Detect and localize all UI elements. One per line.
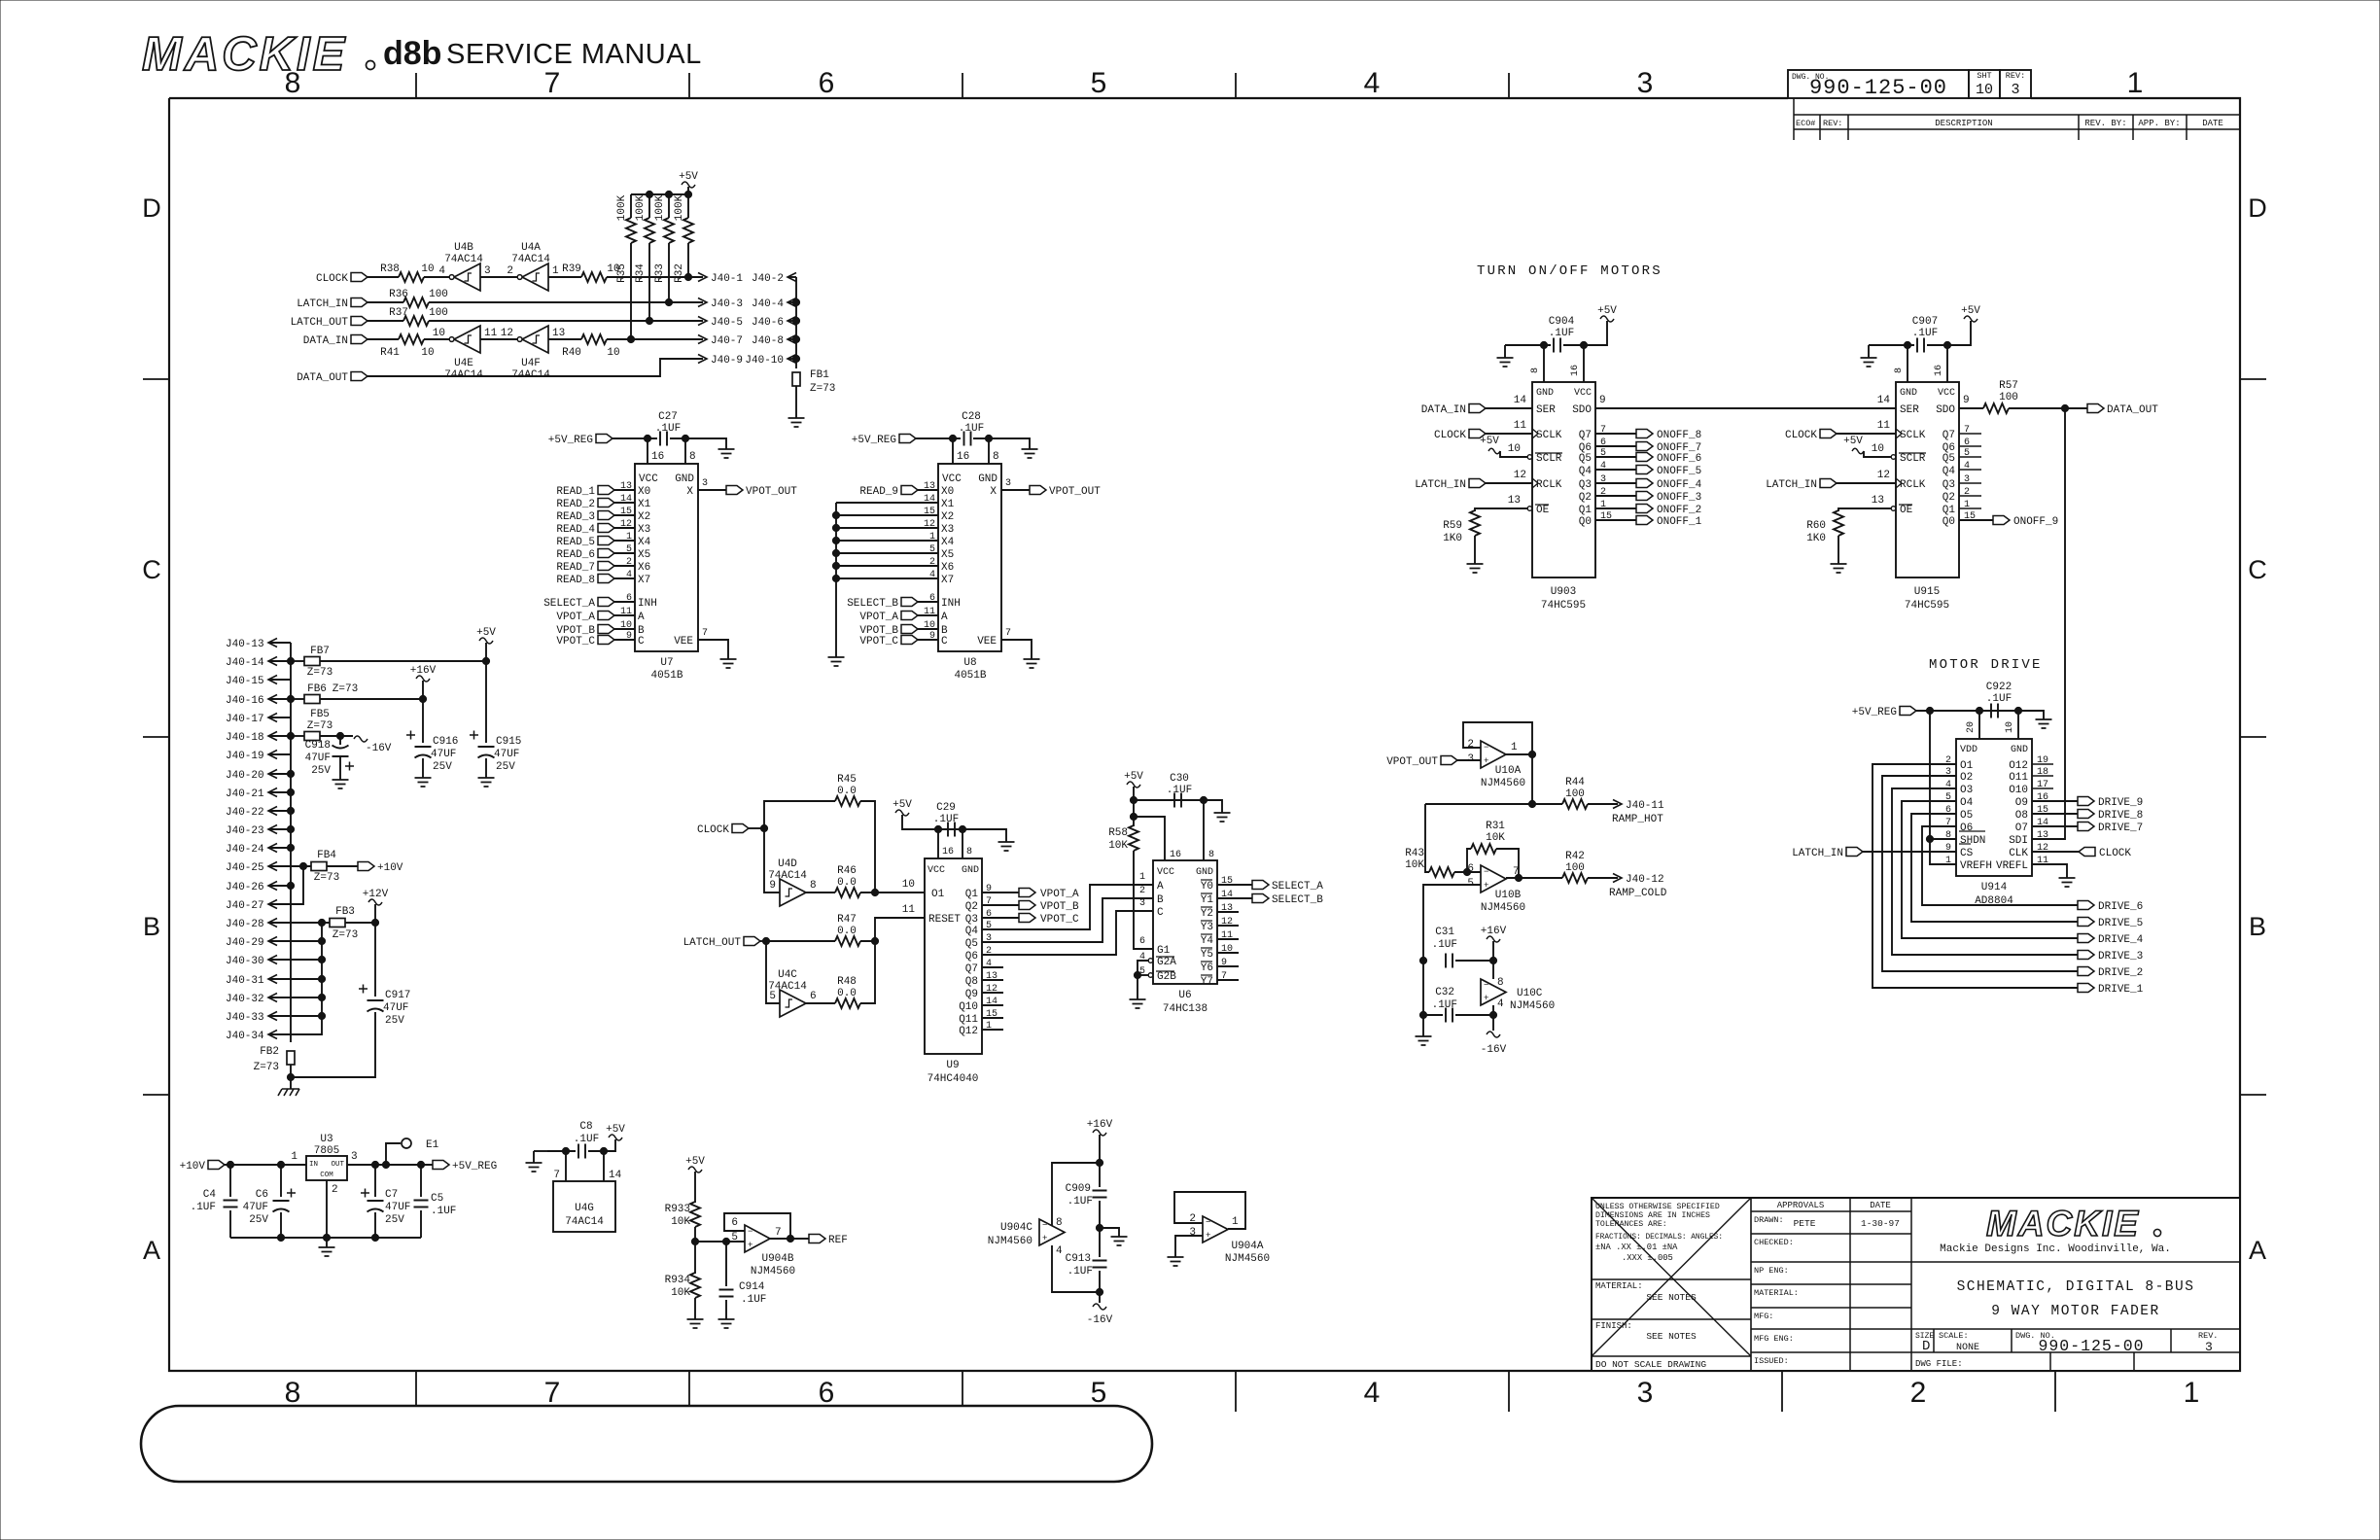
svg-text:Q11: Q11	[959, 1014, 978, 1026]
svg-text:DATE: DATE	[1870, 1201, 1891, 1210]
svg-text:J40-33: J40-33	[226, 1012, 264, 1024]
port +5V_REG out	[433, 1161, 449, 1170]
ground below U904A	[1168, 1257, 1184, 1266]
svg-text:DRIVE_1: DRIVE_1	[2098, 984, 2144, 996]
svg-text:SELECT_A: SELECT_A	[543, 598, 595, 610]
svg-text:.1UF: .1UF	[431, 1206, 456, 1217]
svg-text:J40-24: J40-24	[226, 844, 264, 856]
svg-text:R46: R46	[837, 865, 857, 877]
wire U8 VCC pin 16	[952, 438, 954, 464]
svg-text:Y6: Y6	[1201, 962, 1213, 974]
svg-text:U915: U915	[1914, 586, 1940, 598]
svg-text:6: 6	[819, 67, 835, 99]
resistor R32 100K body	[683, 218, 693, 243]
svg-text:O4: O4	[1960, 797, 1974, 809]
wire U903 Q3 to ONOFF_4	[1595, 482, 1636, 484]
svg-text:R36: R36	[389, 289, 408, 300]
svg-text:READ_1: READ_1	[556, 486, 595, 498]
svg-text:VCC: VCC	[927, 865, 945, 876]
wire U914 DRIVE_2 route	[1882, 776, 2078, 971]
svg-text:ONOFF_8: ONOFF_8	[1657, 430, 1701, 441]
pin J40-7	[698, 335, 707, 344]
stub U9 unused output	[982, 1004, 1003, 1006]
svg-text:U4D: U4D	[778, 858, 797, 870]
svg-text:10K: 10K	[671, 1216, 690, 1228]
svg-text:.1UF: .1UF	[741, 1294, 766, 1306]
svg-text:LATCH_OUT: LATCH_OUT	[291, 317, 349, 329]
svg-text:Q5: Q5	[1579, 453, 1592, 465]
svg-text:Y4: Y4	[1201, 935, 1214, 947]
wire U904B feedback loop	[724, 1213, 790, 1239]
wire J40-24 to bus	[268, 847, 291, 849]
svg-text:10K: 10K	[1486, 832, 1505, 844]
stub U9 unused output	[982, 966, 1003, 968]
capacitor C909 .1UF	[1093, 1191, 1107, 1198]
svg-text:+12V: +12V	[363, 889, 389, 900]
capacitor C30 .1UF	[1174, 793, 1181, 808]
svg-text:+: +	[1484, 756, 1488, 766]
svg-text:8: 8	[1056, 1217, 1063, 1229]
svg-text:DRIVE_6: DRIVE_6	[2098, 901, 2143, 913]
svg-text:16: 16	[957, 451, 969, 463]
svg-text:SELECT_B: SELECT_B	[847, 598, 898, 610]
svg-text:SCLR: SCLR	[1900, 453, 1926, 465]
svg-text:SHDN: SHDN	[1960, 835, 1985, 847]
ferrite bead FB4	[311, 862, 327, 871]
svg-text:C29: C29	[936, 802, 956, 814]
svg-text:X: X	[686, 486, 693, 498]
svg-text:12: 12	[1514, 470, 1526, 481]
svg-text:RAMP_COLD: RAMP_COLD	[1609, 888, 1667, 899]
svg-text:47UF: 47UF	[383, 1002, 408, 1014]
svg-text:C32: C32	[1435, 987, 1454, 998]
svg-text:SDO: SDO	[1936, 404, 1955, 416]
wire ground stub (U904C)	[1100, 1228, 1119, 1237]
svg-text:74HC138: 74HC138	[1163, 1003, 1207, 1015]
svg-text:Q5: Q5	[1942, 453, 1955, 465]
svg-text:C914: C914	[739, 1281, 765, 1293]
svg-text:ONOFF_6: ONOFF_6	[1657, 453, 1701, 465]
svg-text:J40-2: J40-2	[752, 273, 784, 285]
wire R33 to J40-3 row	[668, 243, 670, 302]
wire U8 X4 to bus	[836, 540, 938, 542]
svg-text:R34: R34	[635, 263, 647, 283]
svg-text:47UF: 47UF	[385, 1202, 410, 1213]
svg-text:DRIVE_5: DRIVE_5	[2098, 918, 2143, 929]
svg-text:SCLR: SCLR	[1536, 453, 1562, 465]
resistor R58 10K	[1133, 817, 1135, 826]
svg-text:U904B: U904B	[761, 1253, 793, 1265]
svg-text:16: 16	[1170, 850, 1181, 860]
svg-text:.XXX ±.005: .XXX ±.005	[1622, 1253, 1673, 1263]
wire R34 to J40-5 row	[648, 243, 650, 321]
svg-text:14: 14	[924, 494, 935, 505]
svg-text:U6: U6	[1178, 990, 1191, 1001]
svg-text:12: 12	[501, 328, 513, 339]
svg-text:47UF: 47UF	[431, 749, 456, 760]
svg-text:VPOT_OUT: VPOT_OUT	[746, 486, 797, 498]
wire VPOT_A to U7 A	[614, 614, 635, 616]
wire +5V to C29 rail	[902, 815, 1006, 842]
svg-text:O5: O5	[1960, 810, 1973, 822]
port DRIVE_8	[2078, 810, 2094, 819]
wire READ_7 to U7 X6	[614, 565, 635, 567]
svg-text:GND: GND	[978, 473, 997, 485]
svg-text:Y0: Y0	[1201, 881, 1213, 892]
ground right of C27	[718, 449, 735, 458]
svg-text:LATCH_OUT: LATCH_OUT	[683, 937, 742, 949]
svg-text:6: 6	[1139, 936, 1145, 947]
wire C904 rail	[1505, 344, 1551, 346]
svg-text:SELECT_A: SELECT_A	[1272, 881, 1323, 892]
pin J40-9	[698, 355, 707, 364]
resistor R57 100	[1983, 403, 2009, 413]
svg-text:Q4: Q4	[1579, 466, 1592, 477]
stub U914 unused output	[2032, 775, 2053, 777]
svg-text:100K: 100K	[654, 194, 666, 221]
svg-text:+5V: +5V	[1961, 305, 1980, 317]
wire FB3 to +12V node	[345, 922, 375, 924]
wire U903 Q6 to ONOFF_7	[1595, 445, 1636, 447]
wire U903 GND pin 8	[1543, 345, 1545, 382]
wire R37 to J40-5	[429, 320, 703, 322]
svg-text:SERVICE MANUAL: SERVICE MANUAL	[446, 39, 702, 70]
svg-text:47UF: 47UF	[243, 1202, 268, 1213]
ground below C915	[478, 778, 495, 787]
wire U10B +input to ground net	[1423, 885, 1481, 961]
wire U914 DRIVE_4 route	[1902, 801, 2078, 938]
wire U8 X6 to bus	[836, 565, 938, 567]
wire output node to R44	[1425, 803, 1562, 805]
svg-text:Q7: Q7	[965, 963, 978, 975]
svg-text:READ_8: READ_8	[556, 575, 595, 586]
capacitor C907 .1UF	[1917, 338, 1924, 353]
svg-text:REV:: REV:	[2006, 71, 2025, 81]
svg-text:J40-34: J40-34	[226, 1031, 264, 1042]
svg-text:G2B: G2B	[1157, 971, 1176, 983]
ground below C31/C32	[1416, 1036, 1432, 1045]
wire C915 to ground	[485, 758, 487, 778]
wire LATCH_IN to U903 RCLK	[1486, 482, 1532, 484]
svg-text:J40-18: J40-18	[226, 732, 264, 744]
svg-text:J40-20: J40-20	[226, 770, 264, 782]
ground below R60	[1831, 564, 1847, 573]
drawing border frame	[169, 98, 2240, 1371]
stub U6 Y4	[1217, 938, 1239, 940]
svg-text:REF: REF	[828, 1235, 848, 1246]
svg-text:SCLK: SCLK	[1900, 430, 1926, 441]
svg-text:20: 20	[1966, 721, 1977, 733]
svg-text:VREFH: VREFH	[1960, 860, 1992, 872]
wire J40-14 to bus	[268, 660, 291, 662]
wire U10C pin4 to C32 node	[1492, 1005, 1494, 1015]
wire C907 to +5V	[1927, 321, 1971, 345]
wire J40-26 to bus	[268, 885, 291, 887]
svg-text:R39: R39	[562, 263, 581, 275]
pin J40-1	[698, 273, 707, 282]
svg-text:MACKIE: MACKIE	[1986, 1204, 2140, 1243]
top-right drawing-number block	[1788, 70, 1969, 98]
wire J40-21 to bus	[268, 791, 291, 793]
stub U6 Y3	[1217, 925, 1239, 927]
wire CLOCK to R45	[764, 801, 835, 828]
svg-text:R44: R44	[1565, 777, 1585, 788]
svg-text:Z=73: Z=73	[332, 683, 358, 695]
svg-text:B: B	[143, 912, 160, 941]
svg-text:Z=73: Z=73	[307, 720, 332, 732]
svg-text:J40-19: J40-19	[226, 751, 264, 762]
svg-text:1: 1	[552, 265, 559, 277]
wire U914 VREFL to ground	[2032, 864, 2067, 878]
svg-text:VPOT_OUT: VPOT_OUT	[1386, 756, 1438, 768]
svg-text:CHECKED:: CHECKED:	[1754, 1238, 1794, 1247]
svg-text:Q0: Q0	[1942, 516, 1955, 528]
wire FB4 to +10V port	[327, 865, 358, 867]
svg-text:3: 3	[1005, 478, 1011, 489]
capacitor C7 47UF 25V	[374, 1165, 376, 1197]
power +5V above U4G	[609, 1135, 622, 1140]
port ONOFF_1	[1636, 516, 1653, 525]
svg-text:X0: X0	[638, 486, 650, 498]
wire J40 pin to +12V sub-bus	[268, 1015, 322, 1017]
wire U903 Q0 to ONOFF_1	[1595, 519, 1636, 521]
svg-text:100K: 100K	[635, 194, 647, 221]
svg-text:J40-16: J40-16	[226, 695, 264, 707]
wire U903 SDO to U915 SER	[1595, 407, 1896, 409]
svg-text:DATA_OUT: DATA_OUT	[2107, 404, 2158, 416]
svg-text:2: 2	[626, 557, 632, 568]
wire U915 SDO to R57	[1959, 407, 1983, 409]
wire U6 Y0 to SELECT_A	[1217, 884, 1252, 886]
svg-text:14: 14	[1877, 395, 1891, 406]
wire J40-15 to bus	[268, 679, 291, 681]
svg-text:C: C	[638, 636, 645, 647]
svg-text:3: 3	[1637, 67, 1654, 99]
svg-text:VPOT_OUT: VPOT_OUT	[1049, 486, 1101, 498]
svg-text:DRIVE_8: DRIVE_8	[2098, 810, 2143, 822]
svg-text:DRAWN:: DRAWN:	[1754, 1215, 1784, 1225]
svg-text:+5V: +5V	[1843, 436, 1863, 447]
wire FB5 to -16V node	[320, 735, 353, 737]
wire CLOCK node	[749, 827, 764, 829]
wire U914 O9 to DRIVE_9	[2032, 800, 2078, 802]
IC U8 4051B	[938, 464, 1001, 651]
svg-text:LATCH_IN: LATCH_IN	[297, 298, 348, 310]
svg-text:C909: C909	[1066, 1183, 1091, 1195]
wire READ_8 to U7 X7	[614, 577, 635, 579]
svg-text:RCLK: RCLK	[1536, 479, 1562, 491]
capacitor C913 .1UF	[1093, 1261, 1107, 1268]
svg-text:Q4: Q4	[965, 926, 979, 937]
svg-text:100: 100	[1565, 788, 1585, 800]
svg-text:APPROVALS: APPROVALS	[1777, 1201, 1825, 1210]
resistor R46 0.0	[835, 888, 860, 897]
wire LATCH_OUT to R37	[367, 320, 403, 322]
ferrite bead FB3	[330, 919, 345, 927]
svg-text:25V: 25V	[496, 761, 515, 773]
svg-text:R60: R60	[1806, 520, 1826, 532]
wire +5V node to U6 VCC pin 16	[1134, 800, 1165, 860]
svg-text:Q3: Q3	[1942, 479, 1955, 491]
svg-text:5: 5	[769, 991, 776, 1002]
svg-text:10: 10	[1508, 443, 1521, 455]
svg-text:5: 5	[1091, 67, 1107, 99]
svg-text:.1UF: .1UF	[933, 814, 959, 825]
wire +5V to rail	[485, 643, 487, 661]
capacitor C916 47UF 25V	[415, 746, 432, 748]
svg-text:J40-6: J40-6	[752, 317, 784, 329]
svg-text:11: 11	[484, 328, 498, 339]
svg-text:11: 11	[902, 904, 916, 916]
wire U4G pin 7	[565, 1151, 567, 1181]
wire C27 to ground	[670, 438, 726, 449]
svg-text:C904: C904	[1549, 316, 1575, 328]
ground below U7 VEE	[720, 659, 737, 668]
wire U8 X7 to bus	[836, 577, 938, 579]
svg-text:3: 3	[484, 265, 491, 277]
svg-text:+10V: +10V	[377, 862, 403, 874]
svg-text:J40-7: J40-7	[711, 335, 743, 347]
svg-text:SDI: SDI	[2009, 835, 2028, 847]
wire C913 to -16V node	[1099, 1271, 1101, 1303]
svg-text:CS: CS	[1960, 848, 1974, 859]
ground right of C29	[998, 842, 1015, 851]
svg-text:5: 5	[929, 544, 935, 555]
svg-text:J40-14: J40-14	[226, 657, 264, 669]
IC U915 74HC595	[1896, 382, 1959, 577]
svg-text:d8b: d8b	[383, 35, 441, 72]
svg-text:6: 6	[929, 593, 935, 604]
svg-text:2: 2	[929, 557, 935, 568]
svg-text:+5V: +5V	[1597, 305, 1617, 317]
wire +5V_REG rail to C27	[612, 437, 657, 439]
svg-text:10: 10	[902, 879, 915, 891]
svg-text:VPOT_A: VPOT_A	[556, 612, 595, 623]
op-amp U904B NJM4560	[745, 1225, 770, 1252]
svg-text:Q2: Q2	[965, 901, 978, 913]
svg-text:8: 8	[1894, 367, 1905, 373]
wire U8 X5 to bus	[836, 552, 938, 554]
svg-text:SELECT_B: SELECT_B	[1272, 894, 1323, 906]
stub U6 Y2	[1217, 911, 1239, 913]
svg-text:X4: X4	[638, 537, 651, 548]
stub U915 Q6	[1959, 445, 1981, 447]
port SELECT_A	[1252, 881, 1269, 890]
svg-text:X4: X4	[941, 537, 955, 548]
svg-text:NONE: NONE	[1956, 1343, 1979, 1353]
svg-text:47UF: 47UF	[305, 752, 331, 764]
wire U9 Q6 to U6 C	[982, 911, 1153, 955]
svg-text:READ_6: READ_6	[556, 549, 595, 561]
svg-text:1: 1	[626, 532, 632, 542]
wire U8 unused-input bus to ground	[835, 503, 837, 657]
resistor R32 100K	[630, 194, 632, 218]
svg-text:X1: X1	[941, 499, 955, 510]
svg-text:1K0: 1K0	[1806, 533, 1826, 544]
svg-text:100: 100	[1999, 392, 2018, 403]
svg-text:100: 100	[429, 307, 448, 319]
wire J40-13 to bus	[268, 642, 291, 644]
svg-text:U3: U3	[320, 1134, 332, 1145]
wire +5V to R933	[694, 1172, 696, 1203]
svg-text:R57: R57	[1999, 380, 2018, 392]
wire U10A output	[1506, 753, 1532, 755]
svg-text:.1UF: .1UF	[1067, 1196, 1093, 1207]
wire R42 to J40-12	[1588, 877, 1618, 879]
svg-text:VCC: VCC	[942, 473, 962, 485]
svg-text:READ_5: READ_5	[556, 537, 595, 548]
svg-text:Q3: Q3	[1579, 479, 1592, 491]
power +5V above U903	[1600, 316, 1614, 322]
wire J40 pin to +12V sub-bus	[268, 997, 322, 998]
wire R58 to U6 G1	[1134, 851, 1153, 949]
svg-text:B: B	[2249, 912, 2266, 941]
port ONOFF_7	[1636, 442, 1653, 451]
wire READ_1 to U7 X0	[614, 489, 635, 491]
wire CLOCK to U4D input	[764, 828, 780, 892]
wire C916 to ground	[422, 758, 424, 778]
IC U4G 74AC14 spare	[553, 1181, 615, 1232]
wire C918 to ground	[339, 756, 341, 780]
svg-text:Q3: Q3	[965, 914, 978, 926]
svg-text:10: 10	[433, 328, 445, 339]
U6 G2A bubble	[1148, 959, 1153, 963]
svg-text:10: 10	[421, 263, 434, 275]
svg-text:U9: U9	[946, 1060, 959, 1071]
stub U9 unused output	[982, 1017, 1003, 1019]
title block approvals section	[1751, 1198, 1911, 1371]
wire R32 to J40-1 row	[687, 243, 689, 277]
wire U8 X to VPOT_OUT	[1001, 489, 1030, 491]
op-amp U10C NJM4560	[1481, 979, 1506, 1005]
port CLOCK (motor drive)	[2079, 848, 2095, 857]
svg-text:3: 3	[2011, 82, 2019, 98]
svg-text:-16V: -16V	[1481, 1044, 1507, 1056]
svg-text:4: 4	[929, 570, 935, 580]
svg-text:D: D	[2248, 193, 2267, 223]
wire U8 GND pin 8	[988, 438, 990, 464]
svg-text:VPOT_C: VPOT_C	[1040, 914, 1079, 926]
ground below U3 rail	[319, 1247, 335, 1256]
wire U903 VCC pin 16	[1583, 345, 1585, 382]
svg-text:+10V: +10V	[180, 1161, 206, 1172]
svg-text:U10C: U10C	[1517, 988, 1543, 999]
wire R36 to J40-3	[429, 301, 703, 303]
title block size/scale/dwg row	[1934, 1329, 2171, 1371]
svg-text:FRACTIONS: DECIMALS: ANGL: FRACTIONS: DECIMALS: ANGLES:	[1595, 1234, 1723, 1242]
svg-text:990-125-00: 990-125-00	[2038, 1337, 2144, 1355]
wire J40-2 to bus	[787, 276, 796, 278]
svg-text:6: 6	[626, 593, 632, 604]
power +5V above U915	[1964, 316, 1977, 322]
svg-text:OUT: OUT	[331, 1161, 344, 1169]
svg-text:Y3: Y3	[1201, 922, 1213, 933]
svg-text:+: +	[748, 1241, 752, 1250]
svg-text:J40-17: J40-17	[226, 714, 264, 725]
resistor R933 10K	[690, 1202, 700, 1227]
resistor R48 0.0	[835, 998, 860, 1008]
resistor R31 10K	[1471, 844, 1496, 854]
svg-text:7: 7	[544, 1377, 561, 1409]
svg-text:O10: O10	[2009, 785, 2028, 796]
svg-text:+5V_REG: +5V_REG	[548, 435, 593, 446]
port REF	[809, 1235, 825, 1243]
wire U6 GND pin 8	[1203, 800, 1205, 860]
wire LATCH_OUT node	[760, 940, 766, 942]
svg-text:FB5: FB5	[310, 709, 330, 720]
capacitor C917 47UF 25V	[367, 999, 384, 1001]
svg-text:U914: U914	[1981, 882, 2008, 893]
